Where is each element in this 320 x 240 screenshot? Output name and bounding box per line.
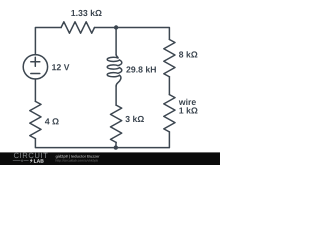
footer logo LAB	[34, 159, 44, 162]
resistor R5 wire 1k vertical zigzag	[164, 95, 175, 132]
wire top-right	[95, 28, 170, 40]
label R5 name wire	[179, 99, 196, 105]
footer title text	[56, 155, 100, 159]
label R4 value 8 kOhm	[179, 51, 197, 57]
wire R3 to bottom junction	[115, 142, 117, 147]
footer logo traces	[13, 160, 29, 162]
resistor R1 1.33k horizontal zigzag	[61, 22, 94, 33]
label R2 value 4 Ohm	[45, 118, 59, 124]
footer logo CIRCUIT	[14, 153, 48, 158]
node junction dot bottom	[114, 145, 118, 149]
label R1 value 1.33 kOhm	[71, 10, 101, 16]
wire between 8k and wire-resistor	[168, 77, 170, 95]
inductor L1 coil	[107, 55, 122, 86]
voltage source V1 circle	[23, 55, 47, 79]
wire inductor to R3	[115, 86, 117, 105]
V1 plus sign	[31, 57, 40, 66]
label R5 value 1 kOhm	[179, 107, 197, 113]
wire source to R2	[34, 79, 36, 101]
wire bottom-right	[116, 132, 170, 148]
wire top junction to inductor	[115, 28, 117, 55]
label L1 value 29.8 kH	[126, 66, 156, 72]
footer bar	[0, 152, 220, 165]
footer logo bolt	[30, 158, 33, 163]
footer url text	[56, 159, 98, 162]
V1 minus sign	[31, 73, 40, 75]
node junction dot top	[114, 25, 118, 29]
resistor R4 8k vertical zigzag	[164, 40, 175, 77]
label R3 value 3 kOhm	[125, 116, 144, 122]
resistor R3 3k vertical zigzag	[111, 105, 122, 142]
resistor R2 4 ohm vertical zigzag	[30, 101, 41, 138]
wire bottom-left	[35, 139, 115, 148]
wire top-left vertical	[35, 28, 61, 55]
label V1 value 12 V	[52, 64, 69, 70]
